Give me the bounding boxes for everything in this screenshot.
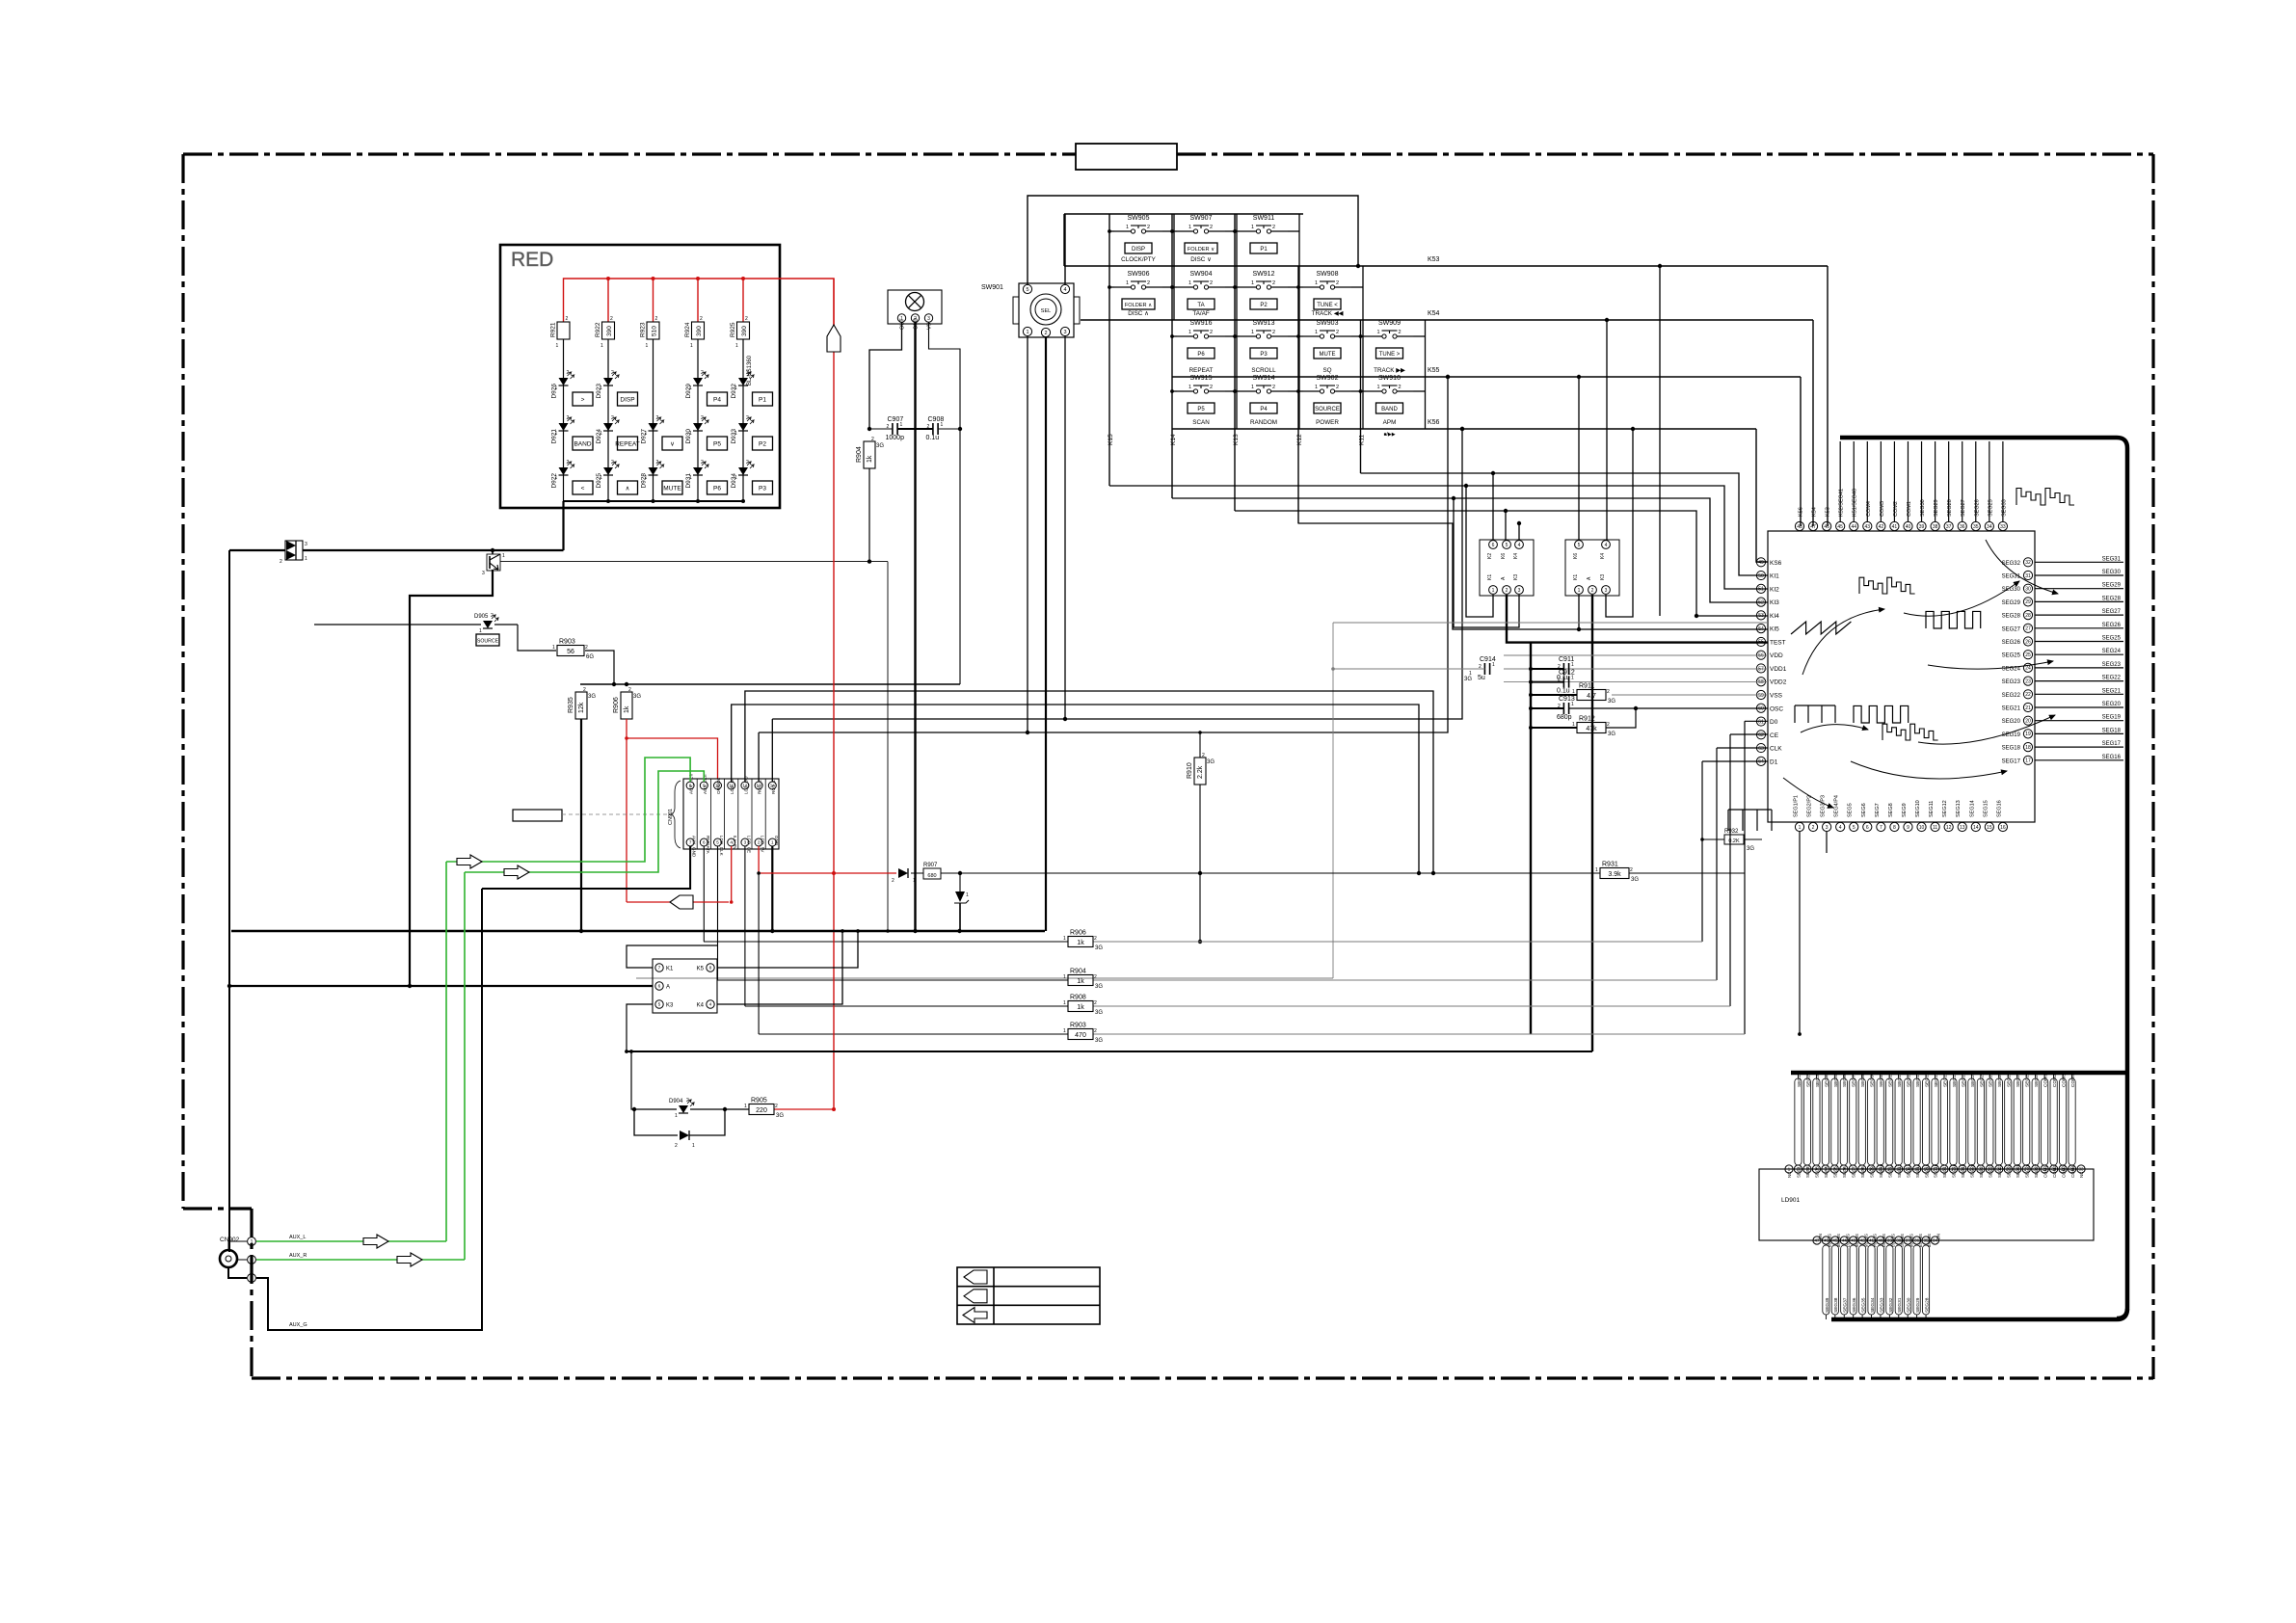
svg-text:OSC: OSC — [1770, 705, 1783, 712]
svg-text:2: 2 — [611, 460, 614, 466]
resistor R906 — [621, 692, 632, 719]
svg-text:33: 33 — [2079, 1167, 2084, 1172]
wire — [1298, 335, 1303, 337]
wire — [1298, 390, 1303, 392]
wire — [653, 339, 654, 501]
svg-text:6G: 6G — [586, 654, 594, 660]
svg-text:2: 2 — [745, 316, 748, 322]
svg-text:SEG10: SEG10 — [1879, 1163, 1883, 1178]
svg-text:ROT_2: ROT_2 — [758, 780, 762, 794]
svg-text:1: 1 — [1595, 867, 1598, 873]
wire cell — [1414, 335, 1426, 337]
svg-text:LD901: LD901 — [1781, 1197, 1801, 1204]
svg-text:D904: D904 — [669, 1099, 683, 1104]
svg-text:TEST: TEST — [1770, 639, 1786, 646]
svg-text:D927: D927 — [641, 429, 648, 444]
resistor R925 — [737, 322, 750, 339]
svg-text:2: 2 — [583, 687, 586, 693]
svg-text:7: 7 — [1880, 825, 1882, 831]
svg-text:K3: K3 — [1513, 574, 1519, 580]
thick LCD segment bus (top) — [1845, 438, 2127, 1318]
resistor R910 line — [1199, 732, 1201, 758]
wire — [2035, 680, 2123, 682]
svg-text:2: 2 — [1399, 330, 1402, 335]
svg-text:SEG11: SEG11 — [1929, 801, 1935, 817]
LED D924 — [603, 423, 613, 431]
wire lcd seg — [1932, 1078, 1938, 1165]
wire — [2035, 561, 2123, 563]
wire lcd seg — [1905, 1078, 1911, 1165]
resistor R935 — [575, 692, 587, 719]
svg-text:SEG29: SEG29 — [1915, 1297, 1921, 1313]
lamp assembly box — [888, 290, 942, 324]
svg-text:1: 1 — [1063, 1028, 1066, 1034]
wire Q902 base line — [500, 561, 888, 563]
wire ill supply rail — [580, 683, 960, 685]
key cap P3 — [753, 481, 773, 494]
wire cell — [1225, 286, 1237, 288]
svg-text:SEG20: SEG20 — [2002, 719, 2021, 725]
unlabeled ref box — [513, 810, 562, 821]
svg-text:2: 2 — [611, 370, 614, 376]
svg-text:2: 2 — [1630, 867, 1633, 873]
svg-text:17: 17 — [2025, 758, 2031, 764]
wire conn1 pin4 tap — [1518, 523, 1520, 540]
svg-text:SEG37: SEG37 — [1843, 1297, 1849, 1313]
svg-text:2: 2 — [611, 415, 614, 421]
svg-text:D922: D922 — [551, 473, 558, 489]
svg-text:LCD_5V: LCD_5V — [761, 836, 765, 853]
svg-text:∧: ∧ — [626, 486, 630, 492]
wire cell — [1351, 335, 1363, 337]
svg-text:2: 2 — [701, 370, 704, 376]
key cap FOLDER ∧ — [1122, 299, 1155, 309]
IC right pin 26 — [2023, 637, 2032, 646]
svg-text:R921: R921 — [550, 322, 557, 337]
svg-text:41: 41 — [1892, 524, 1898, 530]
svg-text:SEG21: SEG21 — [2102, 688, 2122, 694]
wire LCD_CE — [744, 846, 746, 1006]
wire lcd seg lower — [1831, 1245, 1838, 1315]
wire lamp OUT — [869, 322, 902, 429]
key cap TUNE < — [1314, 299, 1341, 309]
svg-text:K4: K4 — [697, 1003, 705, 1009]
wire matrix top bus — [1064, 213, 1303, 215]
svg-text:D934: D934 — [731, 473, 737, 489]
svg-text:34: 34 — [1987, 524, 1992, 530]
svg-text:6: 6 — [1866, 825, 1869, 831]
svg-text:K53: K53 — [1428, 256, 1440, 263]
svg-text:P3: P3 — [1260, 352, 1268, 358]
svg-text:KI1: KI1 — [1770, 573, 1779, 580]
svg-text:SEG16: SEG16 — [2102, 755, 2122, 760]
capacitor C914 — [1483, 663, 1485, 675]
wire — [1172, 230, 1177, 232]
svg-text:470: 470 — [1075, 1032, 1086, 1039]
key cap FOLDER ∨ — [1185, 243, 1217, 253]
svg-text:D929: D929 — [685, 384, 692, 399]
svg-text:3: 3 — [1063, 330, 1066, 335]
svg-text:3G: 3G — [588, 694, 596, 700]
svg-text:3: 3 — [305, 542, 307, 547]
svg-text:1k: 1k — [1077, 978, 1084, 985]
svg-text:SEG18: SEG18 — [2102, 728, 2122, 733]
svg-text:COM3: COM3 — [2061, 1165, 2066, 1178]
svg-text:1k: 1k — [1077, 940, 1084, 946]
svg-text:R904: R904 — [856, 446, 863, 463]
wire cell — [1162, 230, 1174, 232]
svg-text:1: 1 — [601, 343, 603, 349]
wire panel output — [562, 501, 564, 550]
svg-text:5: 5 — [1853, 825, 1855, 831]
svg-text:SEG2: SEG2 — [1805, 1075, 1811, 1087]
arrow — [397, 1253, 422, 1266]
svg-text:510: 510 — [652, 326, 658, 336]
svg-text:53: 53 — [1758, 613, 1764, 619]
svg-text:5: 5 — [1026, 287, 1028, 293]
wire return line — [627, 1051, 1592, 1052]
svg-text:33: 33 — [2000, 524, 2006, 530]
LED D931 — [693, 467, 703, 475]
svg-text:62: 62 — [1758, 732, 1764, 738]
svg-text:KI2: KI2 — [1770, 586, 1779, 593]
wire conn1 pin2 TEST (thick) — [1507, 595, 1768, 643]
svg-text:SW910: SW910 — [1378, 375, 1401, 382]
wire CLK line — [1717, 747, 1768, 749]
svg-text:SW912: SW912 — [1253, 271, 1275, 278]
svg-text:SEG30: SEG30 — [2002, 587, 2021, 593]
svg-text:37: 37 — [1946, 524, 1952, 530]
svg-text:OUT: OUT — [900, 318, 906, 330]
svg-text:SEG26: SEG26 — [2002, 640, 2021, 646]
svg-text:<: < — [581, 486, 585, 492]
svg-text:D924: D924 — [596, 429, 602, 444]
svg-text:2: 2 — [251, 1258, 254, 1264]
svg-text:2: 2 — [1336, 280, 1339, 286]
wire SW901 pin1 encoder A — [1027, 336, 1028, 732]
svg-text:SEG10: SEG10 — [1915, 800, 1921, 817]
svg-text:BL-HS1360: BL-HS1360 — [747, 355, 753, 386]
svg-text:1: 1 — [690, 343, 693, 349]
svg-text:52: 52 — [1758, 599, 1764, 605]
svg-text:FOLDER ∨: FOLDER ∨ — [1188, 247, 1215, 253]
wire matrix row buses — [1064, 265, 1828, 267]
svg-text:TA: TA — [1197, 303, 1204, 308]
svg-text:SW911: SW911 — [1253, 215, 1275, 222]
svg-text:SEG22: SEG22 — [2102, 676, 2122, 681]
svg-text:K53: K53 — [1826, 507, 1831, 517]
svg-text:2: 2 — [1607, 722, 1610, 728]
svg-text:SEG20: SEG20 — [1970, 1163, 1975, 1178]
svg-text:SW914: SW914 — [1253, 375, 1275, 382]
svg-text:5: 5 — [658, 1002, 661, 1008]
svg-text:1: 1 — [1571, 676, 1574, 681]
svg-text:2: 2 — [1094, 974, 1097, 980]
wire lcd seg — [1831, 1078, 1838, 1165]
wire RMDATA — [703, 846, 705, 942]
wire — [1109, 286, 1114, 288]
diode D907 — [898, 868, 908, 878]
wire gray VDD rail — [1333, 622, 1768, 624]
svg-text:3G: 3G — [1464, 677, 1472, 682]
svg-text:1: 1 — [744, 1104, 747, 1109]
svg-text:DISC ∧: DISC ∧ — [1128, 310, 1148, 317]
svg-text:35: 35 — [1973, 524, 1979, 530]
wire AUX_R — [256, 1259, 465, 1261]
svg-text:32: 32 — [2025, 560, 2031, 566]
waveform comb below IC — [1728, 809, 1772, 811]
svg-text:7: 7 — [658, 966, 661, 971]
svg-text:1: 1 — [1492, 662, 1495, 668]
svg-text:1: 1 — [966, 892, 969, 898]
wire ROT_1 line — [771, 719, 773, 782]
svg-text:REPEAT: REPEAT — [615, 441, 640, 448]
svg-text:COM2: COM2 — [2052, 1074, 2058, 1087]
svg-text:K4: K4 — [1513, 553, 1519, 559]
wire keypad K1 — [627, 945, 718, 968]
svg-text:0.1u: 0.1u — [1557, 688, 1570, 695]
svg-text:SEG18: SEG18 — [2002, 746, 2021, 752]
svg-text:AUX_L: AUX_L — [289, 1235, 306, 1240]
wire lamp VS — [929, 322, 961, 684]
svg-text:R911: R911 — [1579, 683, 1594, 690]
wire red LCD_5V — [758, 846, 760, 873]
svg-text:SW903: SW903 — [1317, 320, 1339, 327]
svg-text:6: 6 — [658, 984, 661, 990]
svg-text:2: 2 — [656, 415, 659, 421]
svg-text:1: 1 — [1188, 330, 1191, 335]
key cap REPEAT — [618, 437, 638, 450]
svg-text:D931: D931 — [685, 473, 692, 489]
svg-text:R912: R912 — [1579, 716, 1595, 723]
svg-text:4: 4 — [1839, 825, 1842, 831]
svg-text:SEG1/P1: SEG1/P1 — [1794, 795, 1800, 817]
svg-text:36: 36 — [1960, 524, 1965, 530]
wire — [2035, 746, 2123, 748]
key cap < — [573, 481, 593, 494]
resistor R923 — [647, 322, 659, 339]
svg-text:D926: D926 — [551, 384, 558, 399]
LED D928 — [649, 467, 658, 475]
svg-text:220: 220 — [756, 1107, 767, 1114]
svg-text:2: 2 — [746, 460, 749, 466]
key cap P5 — [1188, 403, 1215, 413]
svg-text:SEG22: SEG22 — [2002, 693, 2021, 699]
svg-text:5: 5 — [1506, 543, 1508, 548]
svg-text:SEG25: SEG25 — [2016, 1163, 2020, 1178]
svg-text:P2: P2 — [1260, 303, 1268, 308]
waveform stair low — [1882, 724, 1938, 740]
svg-text:SEG17: SEG17 — [2102, 741, 2122, 747]
capacitor C911 — [1562, 663, 1564, 675]
resistor R908 — [1068, 1001, 1093, 1012]
svg-text:SEG9: SEG9 — [1869, 1166, 1874, 1178]
svg-text:SCROLL: SCROLL — [1251, 367, 1276, 374]
wire lcd seg — [1895, 1078, 1902, 1165]
connector CN905 keypad — [653, 959, 717, 1013]
svg-text:2: 2 — [1272, 225, 1275, 230]
svg-text:ILL_9V: ILL_9V — [733, 836, 737, 850]
svg-text:KI3: KI3 — [1770, 599, 1779, 606]
IC right pin 31 — [2023, 571, 2032, 579]
LED D904 — [679, 1105, 688, 1113]
svg-text:LCD_DO: LCD_DO — [743, 776, 748, 794]
svg-text:18: 18 — [2025, 745, 2031, 751]
resistor R931 — [1600, 868, 1629, 879]
key cap P1 — [753, 392, 773, 406]
wire — [607, 339, 609, 501]
waveform square B — [1854, 705, 1909, 723]
svg-text:2: 2 — [1147, 225, 1150, 230]
resistor R912 — [1577, 723, 1606, 733]
LED D905 — [483, 621, 493, 628]
svg-text:SEG14: SEG14 — [1969, 800, 1975, 817]
svg-text:1k: 1k — [867, 455, 873, 463]
LED D923 — [603, 378, 613, 386]
svg-text:DISP: DISP — [620, 397, 634, 404]
svg-text:2: 2 — [686, 1098, 689, 1104]
wire key column K13 — [1234, 214, 1236, 511]
svg-text:SW915: SW915 — [1190, 375, 1213, 382]
wire lcd seg — [2060, 1078, 2067, 1165]
svg-text:3G: 3G — [1095, 945, 1103, 951]
svg-text:K1: K1 — [666, 967, 674, 972]
svg-text:1: 1 — [1188, 280, 1191, 286]
wire K13 staircase — [1235, 511, 1768, 616]
LED D922 — [559, 467, 569, 475]
svg-text:3: 3 — [927, 316, 930, 322]
svg-text:1: 1 — [1251, 330, 1254, 335]
legend arrow 1 — [964, 1270, 987, 1284]
svg-text:SEG30: SEG30 — [2102, 570, 2122, 575]
wire cell — [1288, 286, 1299, 288]
svg-text:SEG31: SEG31 — [2102, 556, 2122, 562]
wire — [518, 625, 556, 651]
svg-text:SW908: SW908 — [1317, 271, 1339, 278]
svg-text:3: 3 — [482, 571, 485, 576]
transistor Q902 — [492, 550, 494, 554]
wire ground bus (thick) — [231, 930, 1045, 932]
svg-text:SEG31: SEG31 — [2002, 574, 2021, 580]
wire green AUX_R — [465, 771, 704, 872]
svg-text:R931: R931 — [1602, 862, 1618, 868]
dual diode D901 — [285, 541, 303, 560]
wire cell — [1288, 230, 1299, 232]
svg-text:1: 1 — [1251, 225, 1254, 230]
svg-text:19: 19 — [2025, 732, 2031, 737]
wire — [1235, 286, 1240, 288]
svg-text:3G: 3G — [633, 694, 641, 700]
svg-text:43: 43 — [1865, 524, 1871, 530]
wire cell — [1225, 335, 1237, 337]
wire cell — [1225, 230, 1237, 232]
svg-text:LCD_CLK: LCD_CLK — [719, 836, 724, 857]
wire key column K12 — [1297, 266, 1299, 523]
svg-text:2: 2 — [610, 316, 613, 322]
wire D1 line — [1702, 760, 1768, 762]
svg-text:SEG23: SEG23 — [1997, 1163, 2002, 1178]
svg-text:SOURCE: SOURCE — [1315, 407, 1340, 412]
svg-text:1: 1 — [1063, 936, 1066, 942]
resistor R910 — [1194, 758, 1206, 785]
LED D926 — [559, 378, 569, 386]
svg-text:2: 2 — [1210, 225, 1213, 230]
svg-text:3G: 3G — [1747, 846, 1754, 852]
svg-text:3G: 3G — [1207, 759, 1215, 765]
wire aux ground — [482, 846, 690, 889]
svg-text:SW901: SW901 — [981, 284, 1003, 291]
svg-text:0.1u: 0.1u — [926, 435, 940, 441]
wire shield run — [228, 550, 230, 1252]
svg-text:R908: R908 — [1070, 995, 1086, 1001]
svg-text:5: 5 — [716, 840, 719, 845]
svg-text:8: 8 — [709, 966, 712, 971]
svg-text:D0: D0 — [1770, 719, 1778, 726]
svg-text:K1: K1 — [1487, 574, 1493, 580]
svg-text:3G: 3G — [1095, 1038, 1103, 1044]
svg-text:P1: P1 — [1260, 247, 1268, 253]
title box — [1076, 144, 1177, 170]
wire IC pin3 stub — [1826, 832, 1828, 853]
wire lcd seg — [1868, 1078, 1875, 1165]
svg-text:SEG28: SEG28 — [2102, 596, 2122, 601]
IC right pin 24 — [2023, 663, 2032, 672]
wire conn2 pin1 drop — [1578, 595, 1580, 629]
svg-text:P5: P5 — [1197, 407, 1205, 412]
svg-text:K6: K6 — [1501, 553, 1507, 559]
svg-text:∨: ∨ — [670, 441, 675, 448]
key cap P2 — [753, 437, 773, 450]
svg-text:3G: 3G — [776, 1113, 784, 1119]
svg-text:9: 9 — [1907, 825, 1909, 831]
svg-text:47: 47 — [1810, 524, 1816, 530]
LED D925 — [603, 467, 613, 475]
svg-text:K54: K54 — [1812, 507, 1818, 517]
svg-text:BAND: BAND — [1381, 407, 1398, 412]
resistor R903 — [1068, 1029, 1093, 1040]
svg-text:TA/AF: TA/AF — [1192, 310, 1210, 317]
wire conn2 pin3 loop to K56 — [1606, 429, 1633, 617]
key cap P6 — [1188, 348, 1215, 359]
svg-text:2: 2 — [1147, 280, 1150, 286]
svg-text:11: 11 — [1933, 825, 1937, 831]
wire SW901 pin5 — [1028, 196, 1358, 284]
RED panel box — [500, 245, 780, 508]
svg-text:42: 42 — [1879, 524, 1884, 530]
svg-text:K55: K55 — [1428, 367, 1440, 374]
svg-text:59: 59 — [1758, 693, 1764, 699]
svg-text:DISC ∨: DISC ∨ — [1190, 256, 1211, 263]
svg-text:2: 2 — [1607, 689, 1610, 695]
svg-text:KI4: KI4 — [1770, 613, 1779, 620]
LED D929 — [693, 378, 703, 386]
wire cell — [1288, 335, 1299, 337]
svg-text:2: 2 — [1210, 385, 1213, 390]
svg-text:SEG18: SEG18 — [1952, 1163, 1957, 1178]
svg-text:R924: R924 — [684, 322, 691, 337]
svg-text:47k: 47k — [1586, 726, 1597, 732]
svg-text:AUX_GND: AUX_GND — [692, 836, 697, 858]
svg-text:RMDATA: RMDATA — [706, 836, 710, 855]
wire red ill return — [627, 901, 729, 903]
svg-text:SEG3/P3: SEG3/P3 — [1821, 795, 1827, 817]
wire lcd seg — [1886, 1078, 1893, 1165]
wire K55 to IC — [1577, 375, 1581, 379]
wire — [1172, 335, 1177, 337]
svg-text:2: 2 — [701, 415, 704, 421]
svg-text:D928: D928 — [641, 473, 648, 489]
wire lcd seg lower — [1905, 1245, 1911, 1315]
